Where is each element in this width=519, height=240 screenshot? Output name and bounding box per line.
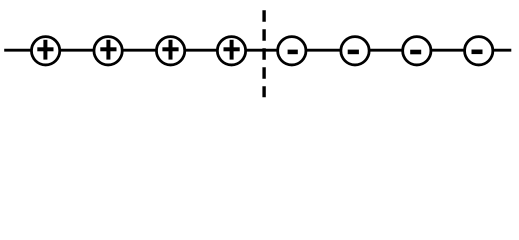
negative charge 5 minus sign bbox=[288, 50, 298, 55]
negative charge 7 minus sign bbox=[410, 50, 421, 55]
positive charge 2 circle bbox=[94, 37, 122, 65]
wire segment between charge 2 and charge 3 bbox=[121, 49, 158, 52]
wire segment between charge 1 and charge 2 bbox=[59, 49, 96, 52]
positive charge 2 plus sign bbox=[100, 40, 116, 60]
negative charge 6 circle bbox=[341, 37, 369, 65]
positive charge 4 circle bbox=[217, 37, 245, 65]
wire segment left lead bbox=[4, 49, 32, 52]
positive charge 3 plus sign bbox=[162, 40, 178, 60]
negative charge 7 circle bbox=[403, 37, 431, 65]
negative charge 8 circle bbox=[465, 37, 493, 65]
positive charge 3 circle bbox=[156, 37, 184, 65]
dashed boundary line bbox=[262, 10, 265, 97]
negative charge 6 minus sign bbox=[348, 50, 359, 55]
positive charge 1 circle bbox=[31, 37, 59, 65]
wire segment between charge 5 and charge 6 bbox=[305, 49, 342, 52]
wire segment right lead bbox=[492, 49, 512, 52]
wire segment between charge 7 and charge 8 bbox=[430, 49, 466, 52]
wire segment between charge 6 and charge 7 bbox=[368, 49, 404, 52]
negative charge 8 minus sign bbox=[472, 50, 483, 55]
positive charge 4 plus sign bbox=[224, 40, 240, 60]
wire segment between charge 4 and charge 5 crossing boundary bbox=[245, 49, 279, 52]
wire segment between charge 3 and charge 4 bbox=[184, 49, 219, 52]
negative charge 5 circle bbox=[278, 37, 306, 65]
positive charge 1 plus sign bbox=[37, 40, 53, 60]
